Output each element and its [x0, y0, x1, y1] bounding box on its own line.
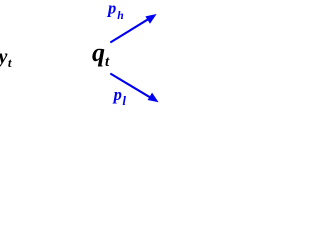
svg-text:qt: qt: [92, 38, 110, 70]
label p_l: [112, 85, 127, 108]
svg-text:pl: pl: [112, 85, 127, 108]
arrow up (high branch): [110, 15, 155, 43]
svg-text:ph: ph: [106, 0, 124, 22]
label p_h: [106, 0, 124, 22]
node left label y_t: [0, 46, 12, 70]
node center label q_t: [92, 38, 110, 70]
arrow down (low branch): [110, 74, 157, 102]
svg-text:yt: yt: [0, 46, 12, 70]
